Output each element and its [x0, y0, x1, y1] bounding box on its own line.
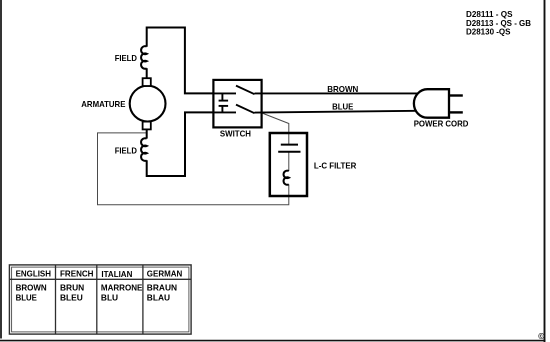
svg-text:BROWN: BROWN: [327, 84, 358, 94]
svg-text:ITALIAN: ITALIAN: [101, 269, 132, 279]
svg-text:©: ©: [538, 332, 544, 341]
svg-text:MARRONE: MARRONE: [101, 283, 143, 293]
svg-text:FIELD: FIELD: [115, 145, 137, 155]
svg-text:SWITCH: SWITCH: [220, 128, 251, 138]
svg-text:BLAU: BLAU: [147, 293, 170, 303]
svg-text:BLUE: BLUE: [16, 293, 38, 303]
svg-text:GERMAN: GERMAN: [147, 268, 183, 278]
svg-text:BRUN: BRUN: [60, 283, 84, 293]
svg-text:BROWN: BROWN: [16, 283, 47, 293]
svg-text:D28130 -QS: D28130 -QS: [466, 27, 511, 37]
svg-text:BLUE: BLUE: [332, 102, 354, 112]
svg-text:BLEU: BLEU: [60, 293, 83, 303]
svg-text:ARMATURE: ARMATURE: [81, 99, 125, 109]
svg-text:BLU: BLU: [101, 293, 118, 303]
svg-text:ENGLISH: ENGLISH: [16, 268, 51, 278]
svg-text:POWER CORD: POWER CORD: [414, 119, 469, 129]
svg-text:FIELD: FIELD: [115, 53, 137, 63]
svg-text:FRENCH: FRENCH: [60, 268, 94, 278]
svg-text:BRAUN: BRAUN: [147, 283, 177, 293]
svg-text:L-C FILTER: L-C FILTER: [314, 161, 357, 171]
